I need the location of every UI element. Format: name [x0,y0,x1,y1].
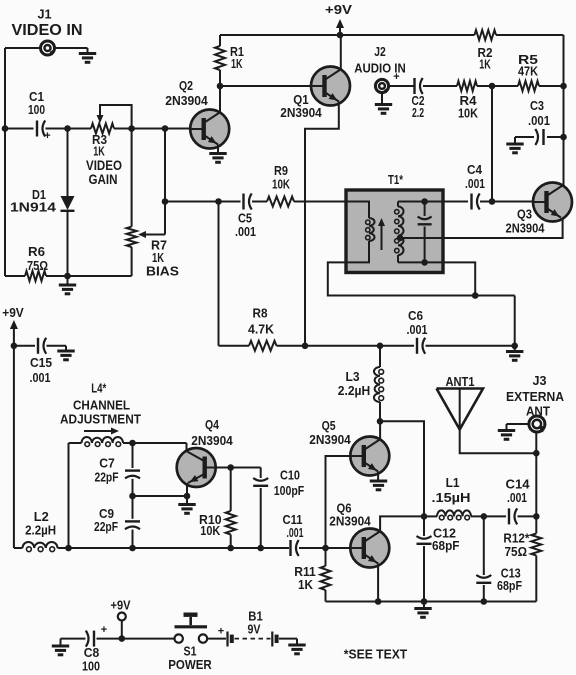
svg-text:1K: 1K [152,251,164,265]
svg-text:.001: .001 [507,491,527,505]
svg-text:J1: J1 [38,8,52,22]
svg-text:.001: .001 [407,323,428,337]
svg-text:+: + [101,624,107,636]
svg-text:VIDEO: VIDEO [86,158,122,173]
svg-text:L4*: L4* [91,382,106,396]
svg-text:Q5: Q5 [322,419,336,433]
svg-text:2N3904: 2N3904 [191,434,233,448]
svg-text:2.2: 2.2 [412,106,424,120]
svg-text:100: 100 [28,103,45,117]
svg-text:.001: .001 [235,225,256,239]
svg-text:9V: 9V [248,623,262,637]
svg-text:C11: C11 [283,513,303,527]
svg-text:T1*: T1* [388,173,403,187]
svg-text:75Ω: 75Ω [505,545,528,559]
svg-text:+: + [218,626,224,638]
svg-text:+9V: +9V [111,599,132,613]
svg-text:ANT1: ANT1 [446,375,475,389]
svg-text:C3: C3 [530,99,544,113]
svg-text:Q6: Q6 [337,502,352,516]
svg-text:L1: L1 [446,476,460,490]
svg-text:VIDEO IN: VIDEO IN [12,22,83,39]
svg-text:+: + [44,130,50,142]
svg-text:BIAS: BIAS [146,265,179,279]
svg-text:J3: J3 [533,374,547,388]
svg-text:.15µH: .15µH [432,491,471,505]
svg-text:GAIN: GAIN [89,172,118,187]
svg-text:2.2µH: 2.2µH [25,524,56,538]
svg-text:68pF: 68pF [432,539,460,553]
svg-text:2N3904: 2N3904 [280,106,322,120]
svg-text:Q3: Q3 [517,208,532,222]
svg-text:10K: 10K [458,107,478,121]
svg-text:C15: C15 [30,356,52,370]
svg-text:Q1: Q1 [293,93,309,107]
svg-text:1K: 1K [93,145,105,159]
svg-text:B1: B1 [248,610,263,624]
svg-text:C4: C4 [467,163,482,177]
svg-text:22pF: 22pF [95,471,119,485]
svg-text:4.7K: 4.7K [248,323,274,337]
svg-text:75Ω: 75Ω [27,259,48,273]
svg-text:C8: C8 [84,646,100,660]
svg-text:C1: C1 [29,90,44,104]
svg-text:Q4: Q4 [205,418,219,432]
svg-text:R6: R6 [28,245,45,259]
svg-text:.001: .001 [528,114,550,128]
svg-text:1K: 1K [231,57,243,71]
svg-text:10K: 10K [200,524,220,538]
svg-text:POWER: POWER [168,657,212,672]
svg-text:*SEE TEXT: *SEE TEXT [344,647,408,662]
svg-text:1K: 1K [298,578,313,592]
svg-text:R11: R11 [294,565,316,579]
svg-text:.001: .001 [30,371,51,385]
svg-text:.001: .001 [465,177,485,191]
svg-text:2N3904: 2N3904 [309,433,351,447]
svg-text:C7: C7 [99,457,115,471]
svg-text:.001: .001 [287,526,304,540]
svg-text:R12*: R12* [503,532,529,546]
svg-text:Q2: Q2 [179,79,193,93]
svg-text:47K: 47K [518,65,538,79]
svg-text:+9V: +9V [2,306,24,320]
svg-text:C14: C14 [506,478,530,492]
svg-text:+9V: +9V [325,3,353,17]
svg-text:2.2µH: 2.2µH [338,384,371,398]
svg-text:EXTERNA: EXTERNA [506,389,565,404]
svg-text:ADJUSTMENT: ADJUSTMENT [60,412,141,427]
svg-text:C9: C9 [99,507,114,521]
svg-text:C5: C5 [238,212,252,226]
svg-text:2N3904: 2N3904 [165,94,208,108]
svg-text:1K: 1K [479,58,491,72]
svg-text:+: + [393,71,399,83]
svg-text:68pF: 68pF [497,579,522,593]
svg-text:R9: R9 [274,164,288,178]
svg-text:C10: C10 [280,469,300,483]
svg-text:2N3904: 2N3904 [329,515,371,529]
svg-text:J2: J2 [374,45,386,59]
svg-text:ANT: ANT [526,404,550,419]
svg-text:1N914: 1N914 [10,201,56,215]
svg-text:C6: C6 [408,309,423,323]
svg-text:2N3904: 2N3904 [506,222,545,236]
svg-text:R8: R8 [253,307,268,321]
svg-text:22pF: 22pF [94,520,118,534]
svg-text:L2: L2 [34,510,49,524]
svg-text:CHANNEL: CHANNEL [73,398,130,413]
svg-text:100pF: 100pF [274,484,305,498]
svg-text:L3: L3 [346,370,360,384]
svg-text:10K: 10K [272,178,290,192]
svg-text:100: 100 [82,660,100,674]
